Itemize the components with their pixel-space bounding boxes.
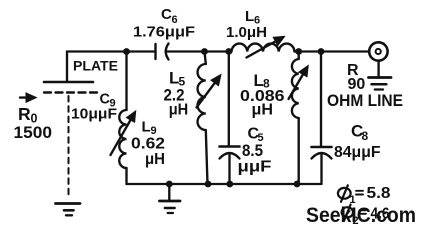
svg-text:SeekIC.com: SeekIC.com [306,203,416,227]
svg-text:4.6: 4.6 [371,206,390,223]
svg-text:1.0μH: 1.0μH [226,25,267,41]
svg-text:μμF: μμF [238,159,272,176]
svg-text:L: L [245,8,254,25]
svg-text:8.5: 8.5 [242,142,263,160]
svg-text:5.8: 5.8 [367,185,391,202]
svg-text:84μμF: 84μμF [334,144,381,161]
svg-text:8: 8 [362,129,369,143]
svg-text:OHM LINE: OHM LINE [327,91,403,110]
svg-text:1500: 1500 [14,123,53,142]
svg-text:C: C [161,6,172,23]
svg-text:μH: μH [169,102,189,119]
svg-text:L: L [142,119,151,136]
svg-text:R: R [18,104,31,124]
svg-text:μH: μH [252,102,274,119]
svg-text:0.62: 0.62 [131,136,165,153]
svg-text:2: 2 [353,215,359,227]
svg-text:10μμF: 10μμF [71,107,117,123]
svg-text:1.76μμF: 1.76μμF [133,24,195,41]
svg-text:PLATE: PLATE [73,59,118,74]
svg-text:μH: μH [145,151,165,168]
